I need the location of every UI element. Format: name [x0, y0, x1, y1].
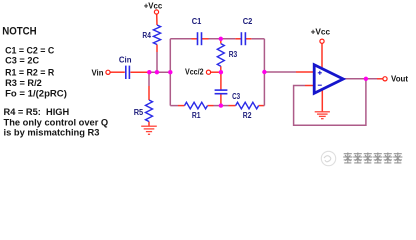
svg-text:Vin: Vin	[92, 69, 104, 78]
svg-text:C1 = C2 = C: C1 = C2 = C	[5, 46, 55, 56]
svg-text:R2: R2	[243, 111, 252, 120]
svg-text:NOTCH: NOTCH	[2, 26, 37, 38]
svg-text:Fo = 1/(2pRC): Fo = 1/(2pRC)	[5, 89, 67, 99]
svg-text:R4: R4	[142, 31, 151, 40]
svg-text:Cin: Cin	[119, 55, 132, 64]
svg-text:C3: C3	[232, 92, 240, 101]
svg-text:Vout: Vout	[391, 74, 408, 83]
svg-text:+Vcc: +Vcc	[311, 27, 331, 36]
svg-text:R1: R1	[192, 111, 201, 120]
svg-text:R3 = R/2: R3 = R/2	[5, 78, 42, 88]
svg-text:R5: R5	[134, 108, 144, 117]
svg-text:Vcc/2: Vcc/2	[185, 68, 204, 77]
svg-text:C1: C1	[192, 17, 202, 26]
svg-text:C3 = 2C: C3 = 2C	[5, 56, 39, 66]
svg-text:The only control over Q: The only control over Q	[4, 118, 109, 128]
svg-text:R3: R3	[229, 50, 238, 59]
svg-text:C2: C2	[243, 17, 253, 26]
svg-text:R1 = R2 = R: R1 = R2 = R	[5, 68, 55, 78]
svg-text:R4 = R5: HIGH: R4 = R5: HIGH	[4, 107, 70, 117]
svg-text:+Vcc: +Vcc	[144, 2, 163, 11]
svg-text:is by mismatching R3: is by mismatching R3	[4, 128, 100, 138]
